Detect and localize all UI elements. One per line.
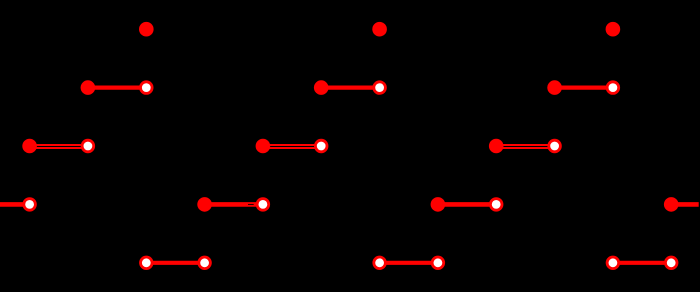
filled site row3 col11 xyxy=(664,197,679,212)
bond row4 col2-col3 (single) xyxy=(146,261,204,265)
filled site row3 col7 xyxy=(431,197,446,212)
open site row3 col4 xyxy=(257,199,269,211)
open site row3 col0 xyxy=(24,199,36,211)
bond row2 col4-col5 (double line) xyxy=(263,145,321,148)
bond row3 col7-col8 (single) xyxy=(438,202,496,207)
bond row1 col9-col10 (single) xyxy=(555,85,613,89)
bond row2 col0-col1 (double line) xyxy=(30,145,88,148)
filled site row2 col0 xyxy=(22,139,37,154)
open site row1 col2 xyxy=(141,82,153,94)
slit artifact in bond row3 col3-col4 near open site xyxy=(248,203,254,206)
open site row2 col1 xyxy=(82,140,94,152)
open site row3 col8 xyxy=(490,199,502,211)
filled site row0 col10 xyxy=(606,22,621,37)
filled site row0 col6 xyxy=(372,22,387,37)
open site row2 col9 xyxy=(549,140,561,152)
bond (half) from filled site row3 col11 to off-canvas right partner xyxy=(671,202,699,207)
filled site row2 col4 xyxy=(256,139,271,154)
open site row2 col5 xyxy=(315,140,327,152)
open site row4 col3 xyxy=(199,257,211,269)
filled site row1 col5 xyxy=(314,80,329,95)
open site row4 col6 xyxy=(374,257,386,269)
filled site row3 col3 xyxy=(197,197,212,212)
bond row4 col6-col7 (single) xyxy=(380,261,438,265)
open site row1 col6 xyxy=(374,82,386,94)
filled site row1 col9 xyxy=(547,80,562,95)
bond row4 col10-col11 (single) xyxy=(613,261,671,265)
bond row2 col8-col9 (double line) xyxy=(496,145,554,148)
open site row4 col11 xyxy=(665,257,677,269)
open site row4 col2 xyxy=(141,257,153,269)
filled site row2 col8 xyxy=(489,139,504,154)
open site row4 col10 xyxy=(607,257,619,269)
filled site row1 col1 xyxy=(81,80,96,95)
bond row1 col5-col6 (single) xyxy=(321,85,379,89)
filled site row0 col2 xyxy=(139,22,154,37)
open site row1 col10 xyxy=(607,82,619,94)
open site row4 col7 xyxy=(432,257,444,269)
bond row3 col3-col4 (single) xyxy=(205,202,263,207)
bond (half) from off-canvas left partner to open site row3 col0 xyxy=(0,202,30,207)
bond row1 col1-col2 (single) xyxy=(88,85,146,89)
